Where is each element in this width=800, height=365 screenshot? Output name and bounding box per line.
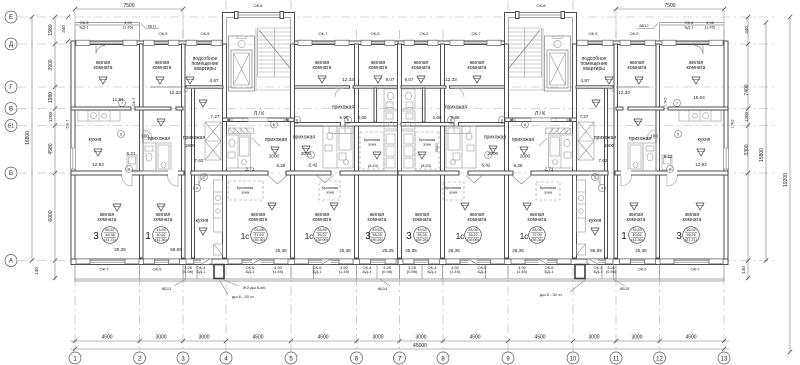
svg-text:комната: комната — [368, 217, 387, 223]
bathroom apt1 (bay1-2) — [127, 155, 137, 170]
svg-text:ОК-5: ОК-5 — [159, 31, 169, 36]
balcony door marks bottom wall — [201, 259, 331, 264]
svg-text:комната: комната — [98, 217, 117, 223]
svg-text:(1,45): (1,45) — [123, 25, 134, 30]
svg-text:6,28: 6,28 — [514, 163, 523, 168]
svg-text:прихожая: прихожая — [445, 105, 468, 111]
tower top window OK-8 — [237, 13, 281, 18]
svg-text:56,59: 56,59 — [170, 247, 182, 252]
rotated wall window tags — [65, 97, 736, 130]
svg-text:Кухонная: Кухонная — [540, 186, 556, 190]
svg-text:9,07: 9,07 — [386, 77, 395, 82]
svg-text:6: 6 — [128, 167, 130, 171]
svg-text:56,57: 56,57 — [105, 228, 114, 232]
svg-text:Б: Б — [9, 171, 13, 177]
svg-text:ОК-7: ОК-7 — [691, 267, 701, 272]
svg-text:58,28: 58,28 — [372, 233, 381, 237]
svg-text:(0,98): (0,98) — [606, 269, 617, 274]
svg-text:БД-1: БД-1 — [246, 269, 256, 274]
svg-text:(1,45): (1,45) — [517, 269, 528, 274]
svg-text:19200: 19200 — [783, 173, 789, 187]
svg-text:25,35: 25,35 — [512, 248, 524, 253]
svg-text:(39,09): (39,09) — [467, 238, 479, 242]
svg-text:28,06: 28,06 — [468, 228, 477, 232]
svg-text:(1,45): (1,45) — [273, 269, 284, 274]
svg-text:1980: 1980 — [48, 24, 54, 35]
svg-text:Кухонная: Кухонная — [237, 186, 253, 190]
svg-text:прихожая: прихожая — [183, 135, 206, 141]
svg-text:9,11: 9,11 — [664, 154, 673, 159]
stair tower outline — [223, 13, 295, 45]
entrance vestibule lines below tower — [243, 118, 268, 122]
svg-text:1200: 1200 — [48, 111, 53, 122]
svg-text:1900: 1900 — [185, 143, 196, 148]
svg-text:(39,36): (39,36) — [531, 238, 543, 242]
svg-text:15,04: 15,04 — [693, 95, 705, 100]
notes below band — [162, 285, 630, 299]
svg-text:кухня: кухня — [196, 218, 209, 224]
svg-text:БД-1: БД-1 — [594, 269, 604, 274]
svg-text:4500: 4500 — [101, 335, 112, 341]
svg-text:1: 1 — [145, 231, 151, 242]
svg-text:8Б12: 8Б12 — [639, 23, 649, 28]
svg-text:56,52: 56,52 — [686, 228, 695, 232]
svg-text:(59,26): (59,26) — [416, 238, 428, 242]
svg-text:9,07: 9,07 — [405, 77, 414, 82]
bathroom cluster apt left (axis2-3) — [143, 143, 171, 171]
svg-text:2000: 2000 — [520, 154, 531, 159]
svg-text:1с: 1с — [305, 232, 313, 241]
svg-text:прихожая: прихожая — [484, 135, 507, 141]
svg-text:48,36: 48,36 — [105, 233, 114, 237]
svg-text:(0,98): (0,98) — [407, 269, 418, 274]
svg-text:комната: комната — [412, 65, 431, 71]
svg-text:4500: 4500 — [685, 335, 696, 341]
svg-text:комната: комната — [468, 65, 487, 71]
interior vertical dim — [434, 143, 439, 153]
apartment numbers — [93, 231, 682, 242]
svg-text:7,62: 7,62 — [195, 158, 204, 163]
svg-text:комната: комната — [154, 217, 173, 223]
bottom exterior wall (А) — [71, 259, 401, 265]
svg-text:1: 1 — [203, 175, 205, 179]
svg-text:15800: 15800 — [759, 148, 765, 162]
svg-text:БД-1: БД-1 — [363, 269, 373, 274]
svg-text:2,60: 2,60 — [433, 115, 442, 120]
svg-text:40,62: 40,62 — [156, 233, 165, 237]
svg-text:4500: 4500 — [534, 335, 545, 341]
svg-text:4,87: 4,87 — [581, 78, 590, 83]
svg-text:100: 100 — [650, 134, 658, 139]
svg-text:3: 3 — [406, 231, 412, 242]
svg-text:(1,45): (1,45) — [339, 269, 350, 274]
svg-text:6,42: 6,42 — [309, 163, 318, 168]
svg-text:58,28: 58,28 — [417, 233, 426, 237]
svg-text:ОК-5: ОК-5 — [153, 267, 163, 272]
svg-text:6: 6 — [669, 167, 671, 171]
svg-text:(41,56): (41,56) — [155, 238, 167, 242]
Б wall (main) — [71, 171, 184, 175]
svg-text:3300: 3300 — [744, 144, 750, 155]
svg-text:36,22: 36,22 — [317, 233, 326, 237]
svg-text:4500: 4500 — [252, 335, 263, 341]
top exterior wall (Д) — [71, 41, 223, 45]
bottom balcony band — [75, 278, 400, 280]
circled wall markers — [118, 100, 682, 192]
В wall segments — [71, 107, 131, 110]
door gaps in B wall + swings — [122, 171, 179, 187]
svg-text:3000: 3000 — [155, 335, 166, 341]
svg-text:2000: 2000 — [301, 151, 312, 156]
svg-text:комната: комната — [468, 217, 487, 223]
svg-text:3: 3 — [93, 231, 99, 242]
tower lower wall — [223, 118, 295, 122]
svg-text:прихожая: прихожая — [512, 137, 535, 143]
entrance porch box — [214, 265, 224, 279]
svg-text:2,60: 2,60 — [358, 115, 367, 120]
svg-text:3000: 3000 — [588, 335, 599, 341]
svg-text:7,27: 7,27 — [211, 114, 220, 119]
horizontal axis lines — [18, 16, 778, 18]
svg-text:13: 13 — [721, 357, 728, 363]
svg-text:96,26: 96,26 — [686, 233, 695, 237]
left exterior wall — [71, 41, 75, 265]
svg-text:12,33: 12,33 — [445, 77, 457, 82]
svg-text:(87,71): (87,71) — [685, 238, 697, 242]
svg-text:БД-1: БД-1 — [197, 269, 207, 274]
svg-text:16800: 16800 — [25, 131, 31, 145]
svg-text:1900: 1900 — [604, 143, 615, 148]
svg-text:2000: 2000 — [488, 151, 499, 156]
svg-text:4580: 4580 — [48, 143, 54, 154]
svg-text:прихожая: прихожая — [594, 135, 617, 141]
svg-text:12: 12 — [656, 357, 663, 363]
svg-text:зона: зона — [423, 143, 432, 147]
svg-text:8Б11: 8Б11 — [147, 24, 157, 29]
top window tags — [80, 3, 716, 36]
svg-text:2000: 2000 — [269, 154, 280, 159]
svg-text:5: 5 — [677, 132, 679, 136]
svg-text:БД-1: БД-1 — [80, 25, 90, 30]
svg-text:комната: комната — [94, 65, 113, 71]
svg-text:зона: зона — [368, 143, 377, 147]
svg-text:ОК-8: ОК-8 — [537, 3, 547, 8]
svg-text:комната: комната — [249, 217, 268, 223]
svg-text:комната: комната — [313, 217, 332, 223]
studio bathroom cluster (bay 5-6) — [323, 126, 353, 168]
svg-text:6,28: 6,28 — [277, 163, 286, 168]
svg-text:45000: 45000 — [413, 343, 427, 349]
svg-text:1200: 1200 — [744, 111, 749, 122]
svg-text:прихожая: прихожая — [148, 136, 171, 142]
svg-text:(0,98): (0,98) — [183, 269, 194, 274]
svg-text:5: 5 — [120, 132, 122, 136]
Б1 wall segments — [295, 123, 341, 127]
svg-text:(41,74): (41,74) — [104, 238, 116, 242]
svg-text:3000: 3000 — [372, 335, 383, 341]
svg-text:БД-1: БД-1 — [428, 269, 438, 274]
svg-text:ОК-7: ОК-7 — [100, 267, 110, 272]
svg-text:25,88: 25,88 — [254, 228, 263, 232]
svg-text:5,95: 5,95 — [340, 115, 349, 120]
svg-text:комната: комната — [153, 65, 172, 71]
svg-text:7,27: 7,27 — [580, 114, 589, 119]
svg-text:БД-1: БД-1 — [685, 25, 695, 30]
svg-text:Кухонная: Кухонная — [322, 186, 338, 190]
svg-text:340: 340 — [61, 25, 66, 33]
svg-text:25,35: 25,35 — [405, 248, 417, 253]
area circles — [102, 227, 700, 244]
svg-text:49,52: 49,52 — [417, 228, 426, 232]
svg-text:(0,98): (0,98) — [382, 269, 393, 274]
svg-text:ОК-7: ОК-7 — [472, 31, 482, 36]
svg-text:2,71: 2,71 — [246, 167, 255, 172]
svg-text:16,59: 16,59 — [156, 228, 165, 232]
svg-text:зона: зона — [241, 191, 250, 195]
svg-text:Д: Д — [9, 42, 13, 48]
vertical axis lines 1..13 — [74, 30, 76, 352]
svg-text:8: 8 — [296, 118, 298, 122]
svg-text:25,35: 25,35 — [114, 247, 126, 252]
svg-text:12,92: 12,92 — [695, 162, 707, 167]
svg-text:6000: 6000 — [48, 210, 54, 221]
svg-text:ОК-7: ОК-7 — [131, 97, 136, 107]
svg-text:ОК-7: ОК-7 — [65, 119, 70, 129]
svg-text:12,33: 12,33 — [342, 77, 354, 82]
svg-text:зона: зона — [326, 191, 335, 195]
svg-text:ОК-7: ОК-7 — [663, 98, 668, 108]
svg-text:7500: 7500 — [123, 3, 134, 9]
closet strip under tower — [229, 128, 254, 134]
corridor closets (bay 3-4) — [205, 122, 221, 160]
svg-text:ОК-7: ОК-7 — [730, 120, 735, 130]
svg-text:3000: 3000 — [631, 335, 642, 341]
svg-text:25,35: 25,35 — [635, 248, 647, 253]
svg-text:56,59: 56,59 — [590, 248, 602, 253]
svg-text:3000: 3000 — [434, 143, 439, 153]
svg-text:ОК-5: ОК-5 — [371, 31, 381, 36]
svg-text:8: 8 — [524, 123, 526, 127]
partition corridor bay6-7 — [374, 88, 377, 122]
svg-text:40,62: 40,62 — [632, 233, 641, 237]
svg-text:25,35: 25,35 — [448, 248, 460, 253]
small dimension/area labels in plan — [92, 77, 707, 253]
svg-text:ОК-5: ОК-5 — [420, 31, 430, 36]
svg-text:комната: комната — [313, 65, 332, 71]
kitchen counter bay 1 — [78, 111, 120, 122]
svg-text:8Б13: 8Б13 — [162, 286, 172, 291]
svg-text:16,59: 16,59 — [632, 228, 641, 232]
svg-text:4: 4 — [196, 186, 198, 190]
balcony top-left — [75, 23, 140, 42]
svg-text:квартиры: квартиры — [194, 66, 216, 72]
svg-text:36,22: 36,22 — [468, 233, 477, 237]
svg-text:(1,45): (1,45) — [705, 25, 716, 30]
svg-text:(8,63): (8,63) — [368, 164, 379, 168]
svg-text:(59,26): (59,26) — [371, 238, 383, 242]
svg-text:10: 10 — [570, 357, 577, 363]
studio kitchen zones (dashed) — [228, 181, 560, 200]
closets under B1 wall — [329, 127, 353, 134]
svg-text:дш 6 - 30 чт.: дш 6 - 30 чт. — [540, 292, 563, 297]
room markers — [94, 76, 705, 235]
svg-text:кухня: кухня — [89, 137, 102, 143]
svg-text:7500: 7500 — [664, 3, 675, 9]
svg-text:4: 4 — [601, 186, 603, 190]
svg-text:4,87: 4,87 — [210, 78, 219, 83]
svg-text:7400: 7400 — [744, 84, 750, 95]
svg-text:8: 8 — [273, 123, 275, 127]
svg-text:Кухонная: Кухонная — [419, 138, 435, 142]
svg-text:прихожая: прихожая — [293, 135, 316, 141]
bathroom bay 6-7 (center stack) — [384, 89, 398, 171]
svg-text:3000: 3000 — [198, 335, 209, 341]
svg-text:3000: 3000 — [415, 335, 426, 341]
svg-text:(1,45): (1,45) — [450, 269, 461, 274]
svg-text:комната: комната — [627, 217, 646, 223]
svg-text:1с: 1с — [241, 232, 249, 241]
svg-text:1с: 1с — [520, 232, 528, 241]
svg-text:25,35: 25,35 — [339, 248, 351, 253]
svg-text:БД-1: БД-1 — [478, 269, 488, 274]
svg-text:Кухонная: Кухонная — [445, 186, 461, 190]
svg-text:3: 3 — [676, 231, 682, 242]
kitchen bay 3-4 counter — [214, 180, 223, 255]
svg-text:1: 1 — [621, 231, 627, 242]
svg-text:3900: 3900 — [48, 59, 54, 70]
svg-text:ОК-5: ОК-5 — [638, 267, 648, 272]
svg-text:340: 340 — [744, 26, 749, 34]
svg-text:12,33: 12,33 — [618, 90, 630, 95]
svg-text:(8,63): (8,63) — [421, 164, 432, 168]
bottom band labels — [100, 265, 701, 274]
svg-text:1с: 1с — [456, 232, 464, 241]
svg-text:кухня: кухня — [698, 137, 711, 143]
svg-text:Кухонная: Кухонная — [364, 138, 380, 142]
svg-text:7,62: 7,62 — [599, 158, 608, 163]
svg-text:А: А — [9, 259, 13, 265]
svg-text:(39,09): (39,09) — [316, 238, 328, 242]
svg-text:комната: комната — [413, 217, 432, 223]
svg-text:зона: зона — [449, 191, 458, 195]
svg-text:25,35: 25,35 — [382, 248, 394, 253]
svg-text:комната: комната — [528, 217, 547, 223]
svg-text:12,92: 12,92 — [92, 162, 104, 167]
svg-text:Л / К: Л / К — [254, 111, 264, 117]
svg-text:5,95: 5,95 — [451, 115, 460, 120]
svg-text:В: В — [9, 107, 13, 113]
svg-text:8Б15: 8Б15 — [620, 286, 630, 291]
svg-text:37,69: 37,69 — [254, 233, 263, 237]
svg-text:49,52: 49,52 — [372, 228, 381, 232]
svg-text:12,33: 12,33 — [169, 90, 181, 95]
Г wall segments — [150, 86, 183, 88]
svg-text:ОК-5: ОК-5 — [630, 31, 640, 36]
svg-text:комната: комната — [687, 65, 706, 71]
svg-text:28,66: 28,66 — [317, 228, 326, 232]
svg-text:(39,36): (39,36) — [253, 238, 265, 242]
svg-text:дш 6 - 30 чт.: дш 6 - 30 чт. — [232, 294, 255, 299]
svg-text:11,84: 11,84 — [112, 97, 124, 102]
svg-text:зона: зона — [544, 191, 553, 195]
svg-text:ЖЗ дш 6-8п.: ЖЗ дш 6-8п. — [243, 285, 266, 290]
svg-text:ОК-5: ОК-5 — [589, 31, 599, 36]
svg-text:4500: 4500 — [317, 335, 328, 341]
svg-text:5,21: 5,21 — [127, 151, 136, 156]
svg-text:1980: 1980 — [48, 92, 54, 103]
svg-text:прихожая: прихожая — [265, 137, 288, 143]
svg-text:кухня: кухня — [589, 218, 602, 224]
leader lines — [141, 24, 658, 296]
svg-text:комната: комната — [683, 217, 702, 223]
svg-text:Л / К: Л / К — [535, 111, 545, 117]
svg-text:11: 11 — [613, 357, 620, 363]
svg-text:комната: комната — [369, 65, 388, 71]
svg-text:Е: Е — [9, 15, 13, 21]
svg-text:28,06: 28,06 — [532, 228, 541, 232]
svg-text:8Б14: 8Б14 — [378, 286, 388, 291]
bathroom under tower — [227, 135, 261, 168]
svg-text:6,42: 6,42 — [482, 163, 491, 168]
kitchen zone bay6-7 (dashed) — [360, 132, 384, 169]
svg-text:прихожая: прихожая — [332, 105, 355, 111]
svg-text:25,35: 25,35 — [275, 248, 287, 253]
svg-text:ОК-8: ОК-8 — [254, 3, 264, 8]
svg-text:ОК-5: ОК-5 — [201, 31, 211, 36]
svg-text:100: 100 — [141, 134, 149, 139]
svg-text:квартиры: квартиры — [583, 66, 605, 72]
svg-text:2,71: 2,71 — [545, 167, 554, 172]
svg-text:(41,56): (41,56) — [631, 238, 643, 242]
svg-text:140: 140 — [741, 266, 746, 274]
svg-text:7: 7 — [676, 101, 678, 105]
svg-text:БД-1: БД-1 — [545, 269, 555, 274]
svg-text:8: 8 — [501, 118, 503, 122]
svg-text:4500: 4500 — [469, 335, 480, 341]
svg-text:прихожая: прихожая — [629, 136, 652, 142]
svg-text:комната: комната — [628, 65, 647, 71]
svg-text:1: 1 — [594, 175, 596, 179]
svg-text:37,09: 37,09 — [532, 233, 541, 237]
svg-text:БД-1: БД-1 — [313, 269, 323, 274]
entry arrows tower bottom — [227, 119, 289, 122]
svg-text:ОК-7: ОК-7 — [319, 31, 329, 36]
svg-text:Б1: Б1 — [8, 124, 14, 130]
svg-text:140: 140 — [34, 267, 39, 275]
